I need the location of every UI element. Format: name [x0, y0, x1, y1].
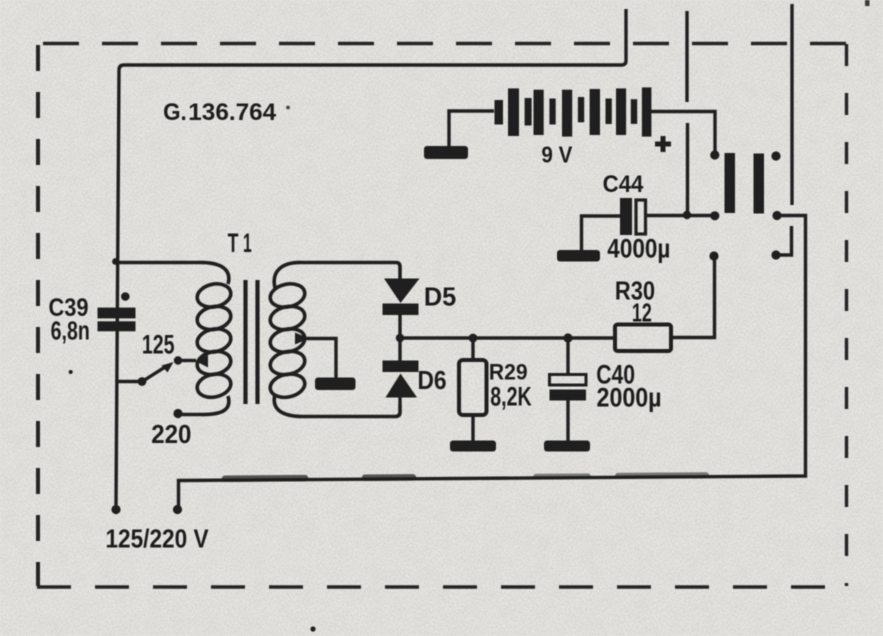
- svg-text:9 V: 9 V: [541, 141, 572, 167]
- svg-text:12: 12: [632, 298, 652, 327]
- svg-text:220: 220: [151, 420, 191, 449]
- svg-text:1: 1: [243, 228, 252, 259]
- svg-text:G.: G.: [163, 98, 187, 125]
- svg-text:D6: D6: [417, 367, 446, 396]
- svg-text:T: T: [228, 227, 239, 258]
- svg-text:125/220 V: 125/220 V: [105, 525, 209, 554]
- svg-text:6,8n: 6,8n: [51, 316, 90, 345]
- svg-text:125: 125: [142, 329, 175, 359]
- svg-text:2000µ: 2000µ: [597, 383, 662, 413]
- svg-text:D5: D5: [424, 283, 456, 311]
- svg-text:C44: C44: [603, 170, 644, 197]
- svg-text:136.764: 136.764: [188, 99, 276, 126]
- svg-text:8,2K: 8,2K: [490, 381, 531, 411]
- svg-text:4000µ: 4000µ: [607, 235, 670, 264]
